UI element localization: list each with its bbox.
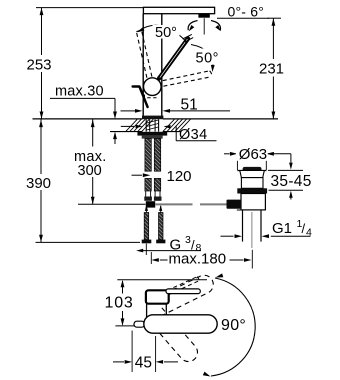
arc 50° left — [137, 25, 193, 42]
svg-text:103: 103 — [105, 295, 134, 312]
dimension 35-45 — [268, 154, 313, 200]
plug cap — [243, 167, 262, 171]
label max.30 — [50, 84, 117, 144]
drain collar — [237, 188, 267, 193]
svg-text:253: 253 — [27, 57, 52, 74]
lever base block — [146, 290, 169, 303]
drain tee body — [241, 194, 265, 210]
label G1 1/4 — [221, 218, 313, 239]
drain neck — [241, 178, 263, 189]
hose end fittings — [144, 191, 161, 201]
pull rod — [133, 87, 148, 108]
faucet body — [143, 14, 162, 116]
counter underside — [110, 131, 181, 133]
aerator nozzle — [198, 14, 209, 18]
countertop line — [33, 118, 279, 120]
103 extension bottom — [115, 325, 144, 327]
dashed spout down-right — [148, 308, 198, 362]
drain tailpipe — [237, 210, 266, 248]
dimension max.180 — [146, 244, 252, 269]
aerator centre line — [203, 18, 205, 34]
spout top view — [144, 315, 217, 333]
390 extension — [36, 241, 141, 243]
stud heads — [142, 240, 166, 244]
flex hoses upper — [145, 139, 161, 172]
threaded studs — [144, 213, 163, 240]
base plate — [142, 116, 163, 120]
lever ball joint — [144, 78, 162, 96]
dashed spout up-right — [152, 275, 213, 316]
label 50° upper — [153, 25, 180, 41]
svg-text:/: / — [302, 221, 306, 236]
body lower top view — [147, 304, 167, 318]
stud arrows — [145, 205, 163, 213]
svg-text:Ø63: Ø63 — [239, 146, 267, 163]
svg-text:0°- 6°: 0°- 6° — [228, 4, 265, 20]
svg-text:45: 45 — [135, 354, 152, 371]
dimension 103 — [105, 280, 134, 326]
rod junction — [146, 201, 155, 207]
dimension Ø63 — [224, 146, 291, 170]
svg-text:G1: G1 — [272, 220, 292, 237]
dimension 120 — [132, 168, 192, 185]
dashed lever up-left — [136, 30, 152, 78]
lever bar — [166, 289, 200, 294]
dimension max.300 — [72, 119, 109, 204]
dimension 390 — [24, 119, 54, 242]
datum line max.300 — [78, 203, 146, 205]
spout bar — [143, 7, 214, 13]
dashed lever top view — [167, 277, 200, 295]
arc 50° right — [191, 45, 215, 73]
swing arc 90° — [203, 273, 255, 376]
svg-text:max.30: max.30 — [55, 84, 104, 100]
drain flange — [237, 171, 266, 178]
dimension 45 — [113, 331, 178, 373]
washer — [142, 136, 163, 139]
label G 3/8 — [136, 234, 201, 254]
counter hatching — [126, 119, 191, 131]
dashed lever right — [163, 71, 212, 86]
dimension 51 — [121, 97, 231, 114]
swivel arc right — [211, 21, 221, 32]
pop-up rod — [155, 203, 226, 205]
svg-text:300: 300 — [78, 163, 102, 179]
swivel arc left — [188, 21, 197, 32]
label 90° — [219, 316, 249, 335]
pop-up knob tab — [134, 321, 145, 327]
tee inlet — [227, 200, 242, 209]
svg-text:51: 51 — [181, 97, 198, 114]
dimension 253 — [25, 8, 54, 119]
dimension 231 — [257, 18, 286, 119]
label 50° lower — [193, 49, 227, 67]
dashed detail below ball — [145, 95, 157, 98]
svg-text:120: 120 — [167, 168, 192, 185]
svg-text:390: 390 — [26, 175, 51, 192]
label Ø34 — [121, 125, 217, 144]
shank — [146, 119, 158, 131]
svg-text:max.180: max.180 — [169, 250, 227, 267]
label 0°-6° — [217, 4, 269, 20]
mounting nut — [137, 132, 167, 136]
svg-text:231: 231 — [259, 61, 284, 78]
svg-text:50°: 50° — [155, 25, 177, 41]
extension line spout top — [36, 7, 143, 9]
lever handle — [159, 39, 188, 79]
svg-text:90°: 90° — [221, 317, 246, 334]
svg-text:50°: 50° — [196, 51, 219, 67]
svg-text:35-45: 35-45 — [271, 173, 312, 190]
103 extension top — [117, 279, 207, 281]
flex hoses lower — [145, 178, 161, 191]
